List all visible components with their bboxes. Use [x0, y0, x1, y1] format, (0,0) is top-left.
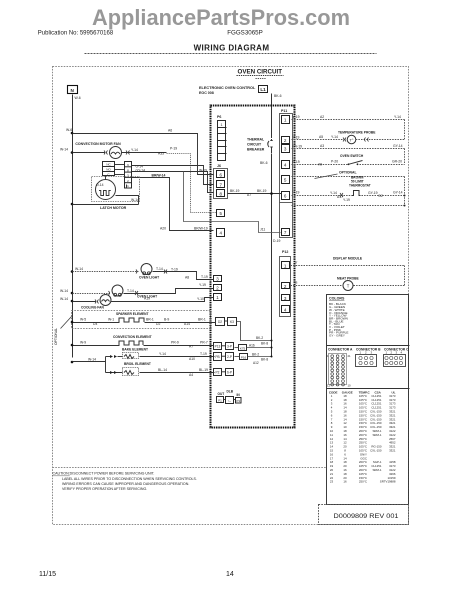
- svg-text:T-19: T-19: [200, 352, 207, 356]
- wire BK-6 vertical bus inside board: [271, 154, 273, 357]
- svg-text:W-14: W-14: [60, 297, 68, 301]
- temperature probe RT1: [292, 131, 405, 144]
- latch switch S1 contact block: [103, 162, 115, 177]
- svg-text:W-14: W-14: [131, 198, 139, 202]
- svg-text:P-19: P-19: [293, 160, 300, 164]
- svg-text:D0009809 REV 001: D0009809 REV 001: [334, 513, 399, 520]
- svg-text:14: 14: [226, 571, 234, 578]
- svg-text:GY-14: GY-14: [393, 191, 403, 195]
- svg-text:K75: K75: [240, 346, 246, 350]
- svg-text:Y-10: Y-10: [197, 297, 204, 301]
- svg-text:2: 2: [284, 138, 287, 143]
- svg-text:A4: A4: [189, 373, 193, 377]
- svg-text:P6: P6: [217, 115, 221, 119]
- wire neutral bus W vertical: [72, 95, 74, 358]
- thermal circuit breaker F1: [247, 135, 273, 357]
- wire BK-19 J6-8 to BK-6 bus and P11-6: [228, 189, 282, 197]
- wire BR/W-14 latch to J6-4: [132, 174, 214, 231]
- svg-text:BK-2: BK-2: [252, 353, 259, 357]
- wire BK-6 from L1 into control board: [272, 94, 282, 136]
- svg-text:Y-14: Y-14: [131, 148, 138, 152]
- motor M2 latch motor: [92, 176, 140, 211]
- optional enclosure dashed: [54, 311, 211, 346]
- svg-text:J6: J6: [217, 164, 221, 168]
- svg-text:CONNECTOR A: CONNECTOR A: [328, 348, 353, 352]
- switch S2 oven switch: [292, 154, 405, 167]
- svg-text:A3: A3: [320, 144, 324, 148]
- svg-text:NO: NO: [106, 168, 111, 172]
- svg-text:11: 11: [327, 384, 330, 388]
- resistor R1 sparker element: [71, 312, 216, 326]
- svg-text:6-P: 6-P: [227, 371, 232, 375]
- legend colors box: [327, 295, 409, 505]
- svg-text:Publication No: 5995670168: Publication No: 5995670168: [38, 31, 114, 37]
- svg-text:D2: D2: [218, 320, 222, 324]
- motor M1 convection fan: [60, 142, 177, 159]
- wire latch C to stack: [115, 174, 125, 176]
- svg-text:T-19: T-19: [201, 275, 208, 279]
- svg-text:CXL-150: CXL-150: [370, 449, 382, 453]
- wire P11-5 optional row: [292, 171, 405, 206]
- svg-text:3: 3: [216, 277, 219, 282]
- svg-text:GY-14: GY-14: [393, 144, 403, 148]
- svg-text:Y-19: Y-19: [343, 198, 350, 202]
- wire W-14 latch return to neutral bus: [71, 203, 139, 206]
- svg-text:J11: J11: [260, 228, 265, 232]
- svg-text:A7: A7: [247, 193, 251, 197]
- svg-text:SPARKER ELEMENT: SPARKER ELEMENT: [116, 312, 149, 316]
- svg-text:OVEN SWITCH: OVEN SWITCH: [340, 154, 364, 158]
- connector latch stack: [125, 162, 132, 189]
- svg-text:V-19: V-19: [293, 115, 300, 119]
- svg-text:W-14: W-14: [60, 289, 68, 293]
- svg-text:BR/W-19: BR/W-19: [194, 227, 208, 231]
- svg-text:A8: A8: [185, 275, 189, 279]
- svg-text:W-14: W-14: [60, 148, 68, 152]
- connector B pin grid: [356, 351, 377, 367]
- svg-text:4: 4: [284, 307, 287, 312]
- svg-text:P1: P1: [218, 399, 222, 403]
- igniter E1 bake: [71, 348, 215, 373]
- svg-text:P11: P11: [281, 109, 287, 113]
- svg-text:D4: D4: [93, 322, 97, 326]
- caution note box: [53, 468, 327, 492]
- svg-text:AppliancePartsPros.com: AppliancePartsPros.com: [92, 5, 350, 30]
- meat probe RT2: [291, 277, 405, 291]
- svg-text:BAKE ELEMENT: BAKE ELEMENT: [122, 348, 148, 352]
- lamp DS2 oven light: [60, 283, 214, 298]
- svg-text:SRTV19888: SRTV19888: [380, 480, 396, 484]
- svg-text:2: 2: [284, 284, 287, 289]
- svg-text:23: 23: [330, 480, 334, 484]
- svg-text:D2: D2: [379, 194, 383, 198]
- svg-text:OUT: OUT: [218, 392, 225, 396]
- svg-text:OVEN LIGHT: OVEN LIGHT: [139, 276, 159, 280]
- thermostat S3 hi-limit: [292, 175, 406, 206]
- svg-text:CAUTION:DISCONNECT POWER BEFOR: CAUTION:DISCONNECT POWER BEFORE SERVICIN…: [53, 472, 155, 476]
- title block D0009809: [319, 505, 409, 525]
- relay K4 pair (broil): [214, 369, 234, 376]
- svg-text:P-19: P-19: [170, 147, 177, 151]
- svg-text:BREAKER: BREAKER: [247, 148, 265, 152]
- svg-text:3: 3: [284, 147, 287, 152]
- svg-text:WIRING DIAGRAM: WIRING DIAGRAM: [194, 44, 270, 53]
- svg-text:6: 6: [284, 194, 287, 199]
- svg-text:A6: A6: [168, 129, 172, 133]
- resistor R2 convection element: [71, 335, 214, 349]
- svg-text:SRM-1: SRM-1: [373, 468, 382, 472]
- sheet border: [53, 67, 409, 525]
- svg-text:LABEL ALL WIRES PRIOR TO DISCO: LABEL ALL WIRES PRIOR TO DISCONNECTION W…: [62, 477, 197, 481]
- svg-text:P-20: P-20: [331, 160, 338, 164]
- svg-text:Y-19: Y-19: [293, 136, 300, 140]
- svg-text:R: R: [295, 281, 298, 285]
- svg-text:7: 7: [284, 230, 287, 235]
- connector A pin grid: [327, 354, 351, 388]
- motor M3 cooling fan: [60, 295, 214, 310]
- svg-text:W-5: W-5: [80, 318, 86, 322]
- svg-text:PR-9: PR-9: [171, 341, 179, 345]
- svg-text:CIRCUIT: CIRCUIT: [247, 143, 262, 147]
- svg-text:21: 21: [348, 354, 352, 358]
- svg-text:6: 6: [219, 172, 222, 177]
- svg-text:EOC 008: EOC 008: [199, 91, 214, 95]
- wire O-14 latch to J6-7: [132, 165, 214, 185]
- svg-text:A33: A33: [158, 152, 164, 156]
- svg-text:2: 2: [216, 286, 219, 291]
- svg-text:DLB: DLB: [227, 390, 234, 394]
- svg-text:OPTIONAL: OPTIONAL: [339, 171, 357, 175]
- wire J11 route J6-5 to P11-7: [260, 228, 280, 244]
- svg-text:TEMPERATURE PROBE: TEMPERATURE PROBE: [338, 131, 376, 135]
- svg-text:A12: A12: [253, 361, 259, 365]
- connector P6: [217, 115, 227, 161]
- svg-text:D-19: D-19: [273, 239, 280, 243]
- svg-text:5: 5: [284, 178, 287, 183]
- svg-text:GR-20: GR-20: [392, 160, 402, 164]
- relay K1 pair (sparker): [216, 318, 273, 342]
- svg-text:OPTIONAL: OPTIONAL: [54, 328, 58, 345]
- svg-text:W-6: W-6: [66, 128, 72, 132]
- svg-text:BR-1: BR-1: [198, 318, 206, 322]
- display module wire P12-1: [291, 257, 405, 286]
- svg-text:P16: P16: [241, 355, 247, 359]
- svg-text:W-14: W-14: [88, 357, 96, 361]
- wire latch NC to stack: [115, 164, 125, 166]
- svg-text:GY-19: GY-19: [293, 145, 303, 149]
- svg-text:DISPLAY MODULE: DISPLAY MODULE: [333, 257, 363, 261]
- svg-text:16: 16: [343, 480, 347, 484]
- wire latch NO to stack: [115, 169, 125, 171]
- wire GY-14 latch to J6-8 and J11 branch: [132, 169, 281, 233]
- wire P11-3 GY-19/A3 row: [292, 144, 405, 165]
- svg-text:BK-8: BK-8: [261, 358, 268, 362]
- connector J6 lower pins 3 2 1: [214, 276, 222, 301]
- svg-text:B-9: B-9: [164, 318, 169, 322]
- svg-text:T-19: T-19: [171, 267, 178, 271]
- svg-text:BK-6: BK-6: [274, 94, 282, 98]
- svg-text:Y-19: Y-19: [293, 191, 300, 195]
- op: control board U1 (EOC) dashed enclosure: [211, 106, 295, 428]
- svg-text:4: 4: [284, 163, 287, 168]
- connector P10: [235, 342, 273, 366]
- svg-text:250°C: 250°C: [359, 480, 367, 484]
- svg-text:A7: A7: [189, 345, 193, 349]
- svg-text:3: 3: [284, 296, 287, 301]
- svg-text:BL-14: BL-14: [158, 368, 167, 372]
- svg-text:A19: A19: [144, 297, 150, 301]
- svg-text:SRM-1: SRM-1: [373, 433, 382, 437]
- svg-text:THERMOSTAT: THERMOSTAT: [349, 183, 371, 187]
- svg-text:A9: A9: [318, 163, 322, 167]
- svg-text:FGGS3065P: FGGS3065P: [227, 30, 262, 37]
- svg-text:CONVECTION MOTOR FAN: CONVECTION MOTOR FAN: [75, 142, 121, 146]
- svg-text:W-14: W-14: [75, 267, 83, 271]
- DLB relay block P1-P3: [217, 390, 242, 404]
- electronic oven control label: [199, 86, 256, 95]
- svg-text:BK-19: BK-19: [230, 189, 240, 193]
- svg-text:L1: L1: [260, 87, 266, 92]
- svg-text:5: 5: [219, 211, 222, 216]
- svg-text:BK-2: BK-2: [256, 336, 263, 340]
- svg-text:Y-14: Y-14: [331, 135, 338, 139]
- connector J6 upper pins 6 7 8: [214, 164, 228, 199]
- svg-text:MEAT PROBE: MEAT PROBE: [337, 277, 360, 281]
- svg-text:>−: >−: [228, 399, 232, 403]
- svg-text:A20: A20: [160, 227, 166, 231]
- svg-text:1: 1: [284, 118, 287, 123]
- svg-text:BR/W-14: BR/W-14: [152, 174, 166, 178]
- svg-text:D2: D2: [156, 322, 160, 326]
- legend connector header: [327, 346, 410, 352]
- svg-text:3-P: 3-P: [227, 345, 232, 349]
- connector J6 pin 4: [217, 229, 225, 237]
- svg-text:Y-19: Y-19: [199, 283, 206, 287]
- svg-text:K3: K3: [230, 320, 234, 324]
- svg-text:T-14: T-14: [127, 289, 134, 293]
- relay K3 pair (bake): [214, 353, 234, 361]
- svg-text:8: 8: [219, 191, 222, 196]
- title underline: [85, 53, 377, 55]
- svg-text:V: V: [295, 261, 298, 265]
- svg-text:T: T: [347, 283, 350, 288]
- svg-text:11/15: 11/15: [39, 571, 56, 578]
- svg-text:Y-14: Y-14: [330, 191, 337, 195]
- svg-text:A10: A10: [189, 357, 195, 361]
- svg-text:7: 7: [219, 182, 222, 187]
- relay K2 pair (convection): [214, 343, 234, 350]
- svg-text:1: 1: [221, 123, 223, 127]
- svg-text:P2: P2: [216, 371, 220, 375]
- wire P11-1 V-19/A2 row: [292, 115, 405, 140]
- svg-text:1: 1: [284, 263, 287, 268]
- svg-text:Y-14: Y-14: [394, 115, 401, 119]
- svg-text:10: 10: [348, 384, 352, 388]
- svg-text:GY - GREY: GY - GREY: [329, 334, 345, 338]
- svg-text:OVEN CIRCUIT: OVEN CIRCUIT: [238, 69, 283, 76]
- wire gauge table: [327, 389, 410, 484]
- node N (neutral): [68, 86, 81, 101]
- svg-text:BL-19: BL-19: [199, 368, 208, 372]
- svg-text:1: 1: [216, 295, 219, 300]
- svg-text:BK-6: BK-6: [260, 161, 268, 165]
- svg-text:2-P: 2-P: [227, 355, 232, 359]
- svg-text:3321: 3321: [389, 449, 396, 453]
- connector C pin grid: [384, 351, 406, 367]
- igniter E2 broil: [106, 362, 215, 377]
- svg-text:THERMAL: THERMAL: [247, 138, 265, 142]
- svg-text:P3: P3: [236, 399, 240, 403]
- svg-text:PR-7: PR-7: [200, 341, 208, 345]
- svg-text:ELECTRONIC OVEN CONTROL: ELECTRONIC OVEN CONTROL: [199, 86, 256, 90]
- svg-text:A16: A16: [249, 344, 255, 348]
- svg-text:T-14: T-14: [156, 267, 163, 271]
- node L1: [259, 86, 268, 93]
- connector P11: [280, 109, 293, 238]
- svg-text:BROIL ELEMENT: BROIL ELEMENT: [124, 362, 151, 366]
- svg-text:W-6: W-6: [75, 96, 81, 100]
- connector J6 pin 5: [217, 210, 225, 217]
- svg-text:Y-14: Y-14: [159, 352, 166, 356]
- svg-text:O-14: O-14: [96, 183, 104, 187]
- svg-text:VERIFY PROPER OPERATION AFTER: VERIFY PROPER OPERATION AFTER SERVICING.: [62, 487, 147, 491]
- svg-text:GY-19: GY-19: [368, 191, 378, 195]
- svg-text:4: 4: [219, 231, 222, 236]
- lamp DS1 oven light: [71, 264, 214, 280]
- svg-text:A2: A2: [320, 115, 324, 119]
- connector P12: [280, 250, 291, 317]
- wire W-6 / A6 to J6-6: [66, 128, 214, 175]
- svg-text:WIRING ERRORS CAN CAUSE IMPROP: WIRING ERRORS CAN CAUSE IMPROPER AND DAN…: [62, 482, 189, 486]
- svg-text:A5: A5: [319, 135, 323, 139]
- svg-text:A14: A14: [184, 322, 190, 326]
- svg-text:P12: P12: [282, 250, 288, 254]
- svg-text:N: N: [71, 88, 75, 93]
- svg-text:BK-8: BK-8: [261, 342, 268, 346]
- svg-text:COOLING FAN: COOLING FAN: [81, 306, 105, 310]
- svg-text:T°: T°: [349, 137, 353, 142]
- wire A33 dotted to J6-5: [158, 152, 217, 213]
- svg-text:BR-1: BR-1: [146, 318, 154, 322]
- svg-text:CONVECTION ELEMENT: CONVECTION ELEMENT: [113, 335, 152, 339]
- svg-text:PB: PB: [215, 355, 219, 359]
- svg-text:W-1: W-1: [108, 318, 114, 322]
- svg-text:W-9: W-9: [80, 341, 86, 345]
- svg-text:IN: IN: [237, 393, 241, 397]
- svg-text:LATCH MOTOR: LATCH MOTOR: [100, 206, 127, 210]
- svg-text:BK-19: BK-19: [257, 189, 267, 193]
- svg-text:P13: P13: [215, 345, 221, 349]
- svg-text:COLORS: COLORS: [329, 297, 345, 301]
